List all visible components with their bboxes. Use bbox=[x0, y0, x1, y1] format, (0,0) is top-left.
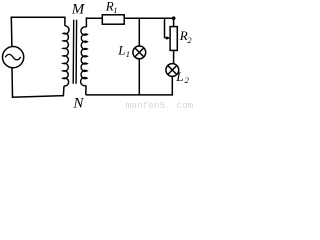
wire secondary bottom lead bbox=[85, 86, 87, 95]
svg-text:L: L bbox=[175, 69, 183, 84]
lamp L2 bbox=[166, 64, 179, 77]
transformer primary winding bbox=[63, 26, 69, 86]
wire left edge above AC source bbox=[10, 17, 13, 47]
wire top edge of left loop bbox=[11, 16, 65, 18]
wire L1 bottom lead bbox=[138, 59, 140, 95]
rheostat slider arrow bbox=[165, 37, 169, 39]
wire L1 top lead bbox=[138, 18, 140, 46]
AC source G1 bbox=[3, 47, 24, 68]
wire secondary top lead bbox=[85, 17, 87, 27]
resistor R1 bbox=[102, 15, 124, 24]
wire bottom edge of left loop bbox=[12, 96, 64, 98]
wire R2 top lead bbox=[173, 18, 175, 26]
wire secondary bottom horizontal bbox=[86, 94, 173, 96]
wire primary top lead bbox=[64, 17, 66, 26]
svg-text:2: 2 bbox=[185, 75, 190, 85]
wire R2 slider drop bbox=[164, 18, 166, 38]
svg-text:L: L bbox=[117, 43, 125, 58]
wire left edge below AC source bbox=[11, 67, 14, 97]
lamp L1 bbox=[133, 46, 146, 59]
resistor R2 bbox=[170, 27, 177, 51]
wire primary bottom lead bbox=[62, 86, 65, 97]
wire R2 bottom lead bbox=[173, 51, 175, 64]
wire L2 bottom lead bbox=[171, 76, 173, 95]
transformer secondary winding bbox=[81, 27, 88, 86]
junction dot bbox=[172, 16, 176, 20]
svg-text:manfen5. com: manfen5. com bbox=[126, 100, 194, 109]
rheostat arrow head bbox=[166, 36, 170, 40]
transformer core bbox=[73, 20, 76, 84]
AC source sine wave bbox=[5, 54, 21, 59]
svg-text:N: N bbox=[72, 95, 84, 109]
svg-text:M: M bbox=[71, 2, 86, 18]
wire secondary top horizontal bbox=[86, 17, 174, 19]
svg-text:2: 2 bbox=[187, 35, 192, 45]
svg-text:1: 1 bbox=[126, 49, 130, 59]
svg-text:1: 1 bbox=[113, 5, 117, 15]
